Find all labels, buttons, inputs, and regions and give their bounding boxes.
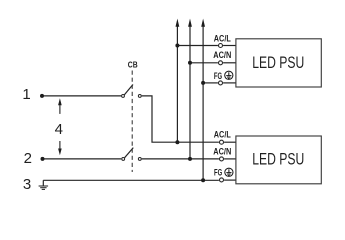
svg-text:AC/N: AC/N xyxy=(213,147,231,158)
svg-text:AC/L: AC/L xyxy=(214,34,231,45)
svg-text:2: 2 xyxy=(24,150,32,167)
svg-text:1: 1 xyxy=(22,86,30,103)
svg-text:LED PSU: LED PSU xyxy=(252,54,304,72)
svg-text:FG: FG xyxy=(214,71,222,82)
svg-text:FG: FG xyxy=(214,167,222,178)
svg-text:LED PSU: LED PSU xyxy=(252,151,304,169)
svg-text:AC/N: AC/N xyxy=(213,50,231,61)
svg-text:4: 4 xyxy=(55,121,63,138)
svg-text:3: 3 xyxy=(23,176,31,193)
svg-text:AC/L: AC/L xyxy=(214,129,231,140)
svg-text:CB: CB xyxy=(128,60,138,70)
